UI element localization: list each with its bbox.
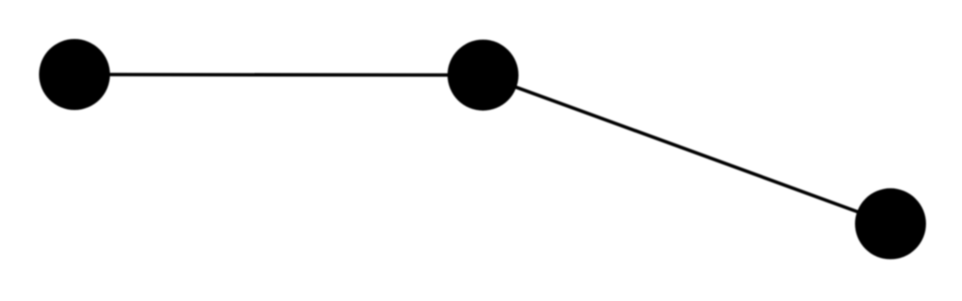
node A xyxy=(39,39,110,110)
wire A-B xyxy=(75,73,484,77)
wire B-C xyxy=(483,75,891,224)
node C xyxy=(855,188,926,259)
node B xyxy=(448,40,519,111)
